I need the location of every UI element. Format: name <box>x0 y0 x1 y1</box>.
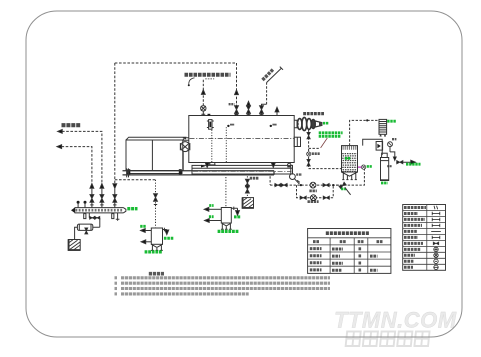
boiler base frame <box>192 165 293 174</box>
oil tank label green <box>345 157 351 160</box>
saddle bracket <box>209 163 216 165</box>
exhaust riser to atmosphere <box>260 106 264 114</box>
Y strainer <box>290 167 292 174</box>
main steam valve riser <box>235 106 239 114</box>
dashed steam main from boiler box <box>114 63 116 183</box>
blowdown pit 1 <box>68 240 80 251</box>
burner 燃烧机 <box>294 120 297 128</box>
green labels tank1 <box>140 225 146 228</box>
aux riser <box>247 101 251 106</box>
suction riser to oil pump <box>336 169 364 185</box>
riser2 with valve <box>100 189 103 208</box>
arrow to users lower <box>57 145 62 149</box>
header drain right <box>116 213 120 221</box>
gauge drain dotted <box>211 130 213 163</box>
feed pump main run <box>270 184 339 186</box>
safety valve <box>276 112 278 116</box>
trap drain to pit <box>75 227 78 239</box>
flame arrester column <box>379 119 387 134</box>
drain arrow into base right <box>272 162 274 165</box>
legend table <box>403 205 446 271</box>
oil storage cylinder <box>382 153 388 157</box>
boiler blowdown drop to pit2 <box>246 176 248 197</box>
flow arrow up riser1 <box>90 184 94 189</box>
boiler shell <box>189 116 294 163</box>
transfer pump <box>361 165 365 169</box>
tank2 outlet upper <box>206 208 222 210</box>
exhaust stack diagonal <box>267 67 283 83</box>
vent riser with ball valve <box>202 80 204 105</box>
flange pad b <box>235 114 238 116</box>
standby pump 备用水泵 <box>311 195 317 201</box>
steam header 分汽缸 <box>75 208 126 213</box>
boiler water level centerline <box>190 137 294 139</box>
oil day tank <box>342 146 358 172</box>
steam line to users (lower) <box>62 147 92 183</box>
feedwater pipe to boiler <box>183 138 189 141</box>
blowdown internal dotted <box>225 127 227 162</box>
technical notes 技术要求 <box>149 272 165 276</box>
boiler blowdown drop to tank2 <box>225 174 227 207</box>
dashed box right edge to boiler <box>236 63 238 105</box>
tank outlet lower <box>143 241 152 243</box>
pressure gauge <box>388 142 393 147</box>
feed pump 水泵 <box>310 182 316 188</box>
watermark 中国贸易网 <box>346 332 430 347</box>
instrumentation dashed box top edge <box>115 62 237 64</box>
tank right vent <box>163 228 167 234</box>
flange pad a <box>208 114 211 116</box>
oil return branch <box>309 147 321 149</box>
header leg right <box>112 214 114 219</box>
feed drop pipe <box>182 152 184 171</box>
trap valve <box>85 228 88 234</box>
svg-text:TTMN.COM: TTMN.COM <box>334 308 457 333</box>
tank outlet upper <box>142 230 151 232</box>
drain arrow into base left <box>206 162 208 165</box>
probe point right <box>270 125 272 127</box>
arrow to users upper <box>58 130 63 134</box>
soft water feed branch <box>115 179 156 181</box>
economizer base rail <box>127 171 182 174</box>
right wall sight box <box>294 137 300 146</box>
riser1 with valve <box>90 189 93 208</box>
burner annotation green <box>319 131 343 134</box>
condensate trap vessel <box>77 224 92 230</box>
feed drop to condensate tank <box>155 180 157 228</box>
standby pump bypass <box>297 185 334 198</box>
header label (green) <box>127 207 137 210</box>
economizer 3D box <box>126 137 186 170</box>
feed globe valve <box>181 142 190 152</box>
water gauge glass <box>209 120 212 130</box>
steam user label 至用气处 <box>62 123 82 127</box>
base inlet arrow <box>201 165 205 168</box>
burner label <box>303 112 325 115</box>
main bottom pipe <box>123 171 275 175</box>
pump suction branch <box>269 176 271 185</box>
probe point left <box>227 125 229 127</box>
oil suction line from burner <box>309 130 342 169</box>
oil pump <box>307 152 311 156</box>
blowdown expansion tank <box>221 208 231 224</box>
flow arrow down riser3 <box>113 184 117 189</box>
oil filter box <box>376 142 383 151</box>
tank2 outlet lower <box>206 220 221 222</box>
tank vent line <box>350 120 379 145</box>
small stub valve a <box>77 204 79 208</box>
green labels tank2 <box>209 204 213 207</box>
flow arrow up riser2 <box>100 184 104 189</box>
header blowoff piping <box>89 213 100 227</box>
cylinder outlet <box>396 161 412 163</box>
right bottom stub <box>288 163 291 166</box>
instrument table <box>308 229 391 274</box>
riser3 with valve <box>113 189 116 208</box>
blowdown valve label <box>250 177 259 180</box>
header leg left <box>84 214 86 219</box>
check valve slanted <box>339 182 346 189</box>
condensate recovery tank <box>151 228 162 244</box>
small stub valve b <box>84 204 86 208</box>
tank2 right drain <box>231 207 237 214</box>
pressure label 压力表/压力控制器 <box>185 73 231 77</box>
steam line to users (upper) <box>62 131 102 183</box>
blowdown pit 2 <box>242 198 253 209</box>
fan feed elbow <box>363 139 383 155</box>
tank cone and legs <box>342 172 358 180</box>
